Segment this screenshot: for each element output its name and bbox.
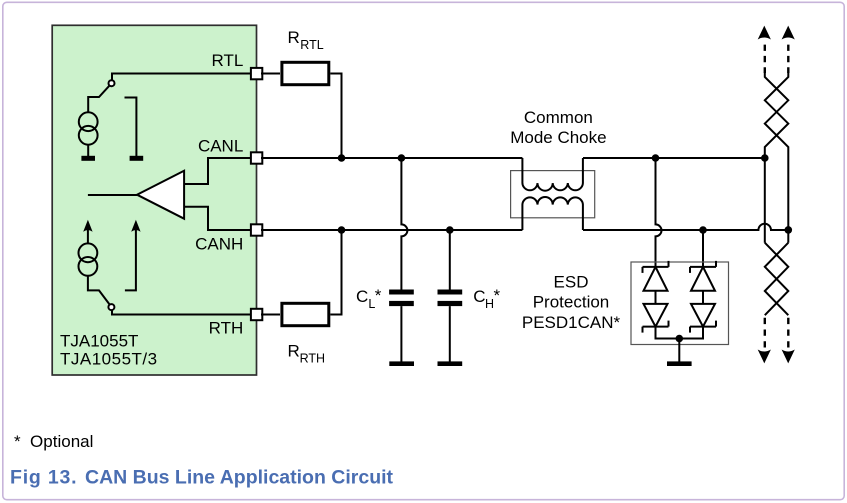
svg-text:TJA1055T: TJA1055T [60,331,138,350]
wire I1 to ground [87,145,89,157]
diode D2b zener down [690,304,716,333]
svg-text:Mode Choke: Mode Choke [510,128,606,147]
wire receiver input [88,194,137,196]
label CH [473,286,500,311]
svg-text:CANH: CANH [195,235,243,254]
wire CL to ground [400,306,402,361]
wire CANL bus right segment [583,157,765,159]
transceiver U1 TJA1055T green box [52,25,256,375]
svg-text:Common: Common [524,108,593,127]
ground bar ESD [667,361,692,366]
svg-text:Protection: Protection [533,293,610,312]
svg-text:R: R [288,342,300,361]
svg-text:TJA1055T/3: TJA1055T/3 [60,350,158,369]
twisted pair upper crossing wires [765,73,789,243]
wire D2a-D2b link [702,291,704,304]
choke winding CANL [522,158,583,191]
capacitor CL [389,290,414,307]
svg-text:RTH: RTH [300,351,325,365]
label TJA1055T [60,331,138,350]
node CANL-CL junction [398,154,406,162]
note Optional [14,432,93,451]
label CANL [198,137,243,156]
label TJA1055T/3 [60,350,158,369]
svg-text:CANL: CANL [198,137,243,156]
node CANH-ESD junction [699,226,707,234]
pin RTL [251,68,262,79]
ground bar CH [438,361,463,366]
diode D1b zener down [643,304,669,333]
svg-text:RTH: RTH [209,318,244,337]
label Common Mode Choke [510,108,606,147]
caption Fig 13 [10,467,394,489]
current source I1 [79,112,98,144]
pin RTH [251,309,262,320]
resistor RRTH [282,303,329,325]
wire CANH bus left segment with hop at CL [261,229,522,231]
node ESD center junction [676,335,684,343]
ground bar CL [389,361,414,366]
switch S2 contact circle [108,304,114,310]
pin CANH [251,224,262,235]
diode D1a zener up [643,261,669,291]
svg-text:R: R [288,28,300,47]
svg-text:* Optional: * Optional [14,432,93,451]
node CANH-buswire junction [785,226,793,234]
svg-text:*: * [494,286,501,305]
svg-text:*: * [375,286,382,305]
op-amp U1a receiver triangle [137,171,184,219]
svg-text:RTL: RTL [211,51,243,70]
svg-text:C: C [473,287,485,306]
svg-text:C: C [356,287,368,306]
svg-text:ESD: ESD [554,272,589,291]
choke winding CANH [522,197,583,230]
twisted pair lower dashed leads [765,318,789,348]
switch S2 lever wire [88,276,110,305]
svg-text:RTL: RTL [300,38,323,52]
fixed contact stub upper [125,98,137,157]
label RTH [209,318,244,337]
twisted pair upper arrows [758,26,795,40]
capacitor CH [438,290,463,307]
twisted pair lower arrows [758,350,795,364]
wire ESD bottom rail [656,327,704,339]
resistor RRTL [282,62,329,84]
pin CANL [251,152,262,163]
diode D2a zener up [690,261,716,291]
ground bar under fixed contact [130,156,144,161]
wire CANL internal [184,158,250,184]
wire ESD left stem [656,158,662,267]
wire ESD to ground [678,339,680,362]
label CL [356,286,382,311]
common mode choke L1 box [511,171,595,218]
wire RRTL to CANL [330,74,341,159]
wire RTL internal [112,74,250,81]
wire CH to ground [449,306,451,361]
node RRTL-CANL junction [338,154,346,162]
wire D1a-D1b link [655,291,657,304]
svg-text:PESD1CAN*: PESD1CAN* [522,313,621,332]
wire CH stem [449,230,451,290]
label R RTH [288,342,326,366]
ground bar under I1 [81,156,95,161]
arrow fixed stub lower [125,220,141,291]
label RTL [211,51,243,70]
svg-text:Fig 13.: Fig 13. [10,467,77,489]
node CANL-buswire junction [761,154,769,162]
wire RTH internal [112,310,250,315]
wire CANH internal [184,207,250,230]
current source I2 [79,243,98,275]
ESD protection D1 box [631,262,729,345]
twisted pair lower crossing wires [765,243,789,316]
wire RTH pin to RRTH [261,314,280,316]
node RRTH-CANH junction [338,226,346,234]
wire CL stem [401,158,407,290]
wire RRTH to CANH [330,230,341,315]
wire RTL pin to RRTL [261,73,280,75]
switch S1 lever wire [88,85,109,112]
svg-text:CAN Bus Line Application Circu: CAN Bus Line Application Circuit [85,467,394,489]
label R RTL [288,28,324,52]
label ESD Protection PESD1CAN [522,272,621,332]
node CANH-CH junction [446,226,454,234]
switch S1 contact circle [109,80,115,86]
node CANL-ESD junction [652,154,660,162]
arrow current source I2 [83,220,92,244]
wire ESD right stem [702,230,704,267]
wire CANH bus right segment with hops [583,224,788,230]
wire CANL bus left segment [261,157,522,159]
twisted pair upper dashed leads [765,45,789,73]
label CANH [195,235,243,254]
